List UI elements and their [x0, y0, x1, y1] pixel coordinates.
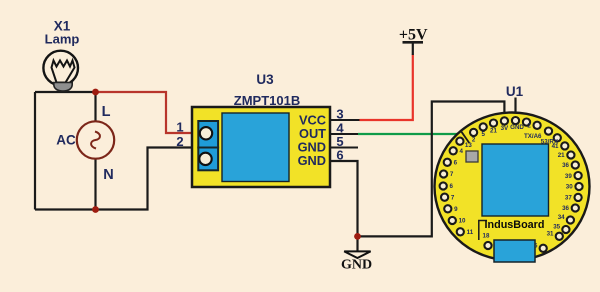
wire: AC loop top edge — [35, 91, 96, 93]
U3 terminal block cell 2 — [198, 148, 218, 171]
svg-text:10: 10 — [459, 218, 466, 225]
lamp X1 filament — [52, 61, 75, 83]
svg-text:+5V: +5V — [399, 27, 428, 44]
wire: diagonal lead from green net to board hole — [462, 132, 470, 143]
svg-text:53/RX: 53/RX — [541, 139, 559, 146]
svg-text:6: 6 — [454, 160, 458, 167]
U3 transformer block — [222, 113, 289, 182]
AC source sine squiggle — [91, 132, 100, 149]
svg-text:4: 4 — [460, 148, 464, 155]
svg-text:18: 18 — [483, 233, 490, 240]
svg-text:U3: U3 — [256, 72, 274, 87]
svg-text:IndusBoard: IndusBoard — [485, 219, 545, 231]
svg-text:2: 2 — [176, 134, 183, 149]
U1 main chip — [482, 144, 549, 216]
wire: AC loop left side — [34, 92, 36, 210]
junction on GND net — [354, 233, 361, 240]
svg-text:13: 13 — [465, 142, 472, 149]
svg-text:ZMPT101B: ZMPT101B — [234, 93, 300, 108]
U1 inner hole 18 — [484, 242, 491, 249]
svg-text:9: 9 — [454, 206, 458, 213]
svg-text:5: 5 — [481, 131, 485, 138]
svg-text:36: 36 — [562, 162, 569, 169]
svg-text:37: 37 — [565, 195, 572, 202]
wire: red net from lamp junction to U3 pin 1 — [96, 92, 195, 133]
wire: AC loop bottom + riser to pin 2 — [35, 148, 194, 210]
svg-text:N: N — [103, 167, 113, 183]
wire: U3 pin 5 stub — [330, 147, 358, 149]
svg-text:7: 7 — [451, 194, 455, 201]
U1 pin number labels — [450, 123, 574, 250]
svg-text:11: 11 — [467, 229, 474, 236]
AC source circle — [77, 121, 114, 158]
svg-text:GND: GND — [298, 153, 326, 168]
svg-text:L: L — [102, 104, 111, 120]
U1 pin holes around board edge — [440, 117, 583, 252]
svg-text:GND: GND — [341, 258, 372, 273]
wire: +5V red net to pin 3 — [360, 55, 413, 121]
U3 terminal block cell 1 — [198, 121, 218, 148]
wire: AC source top lead — [94, 92, 96, 122]
svg-text:TX/A6: TX/A6 — [524, 133, 542, 140]
wire: GND net junction branch to U1 top pin — [358, 102, 505, 237]
junction at lamp / pin1 net — [92, 89, 99, 96]
wire: U3 pin 4 stub — [330, 133, 358, 135]
+5V symbol bar — [403, 41, 424, 44]
svg-text:31: 31 — [547, 230, 554, 237]
svg-text:3V: 3V — [501, 125, 509, 132]
svg-text:1: 1 — [176, 120, 183, 135]
svg-text:GND: GND — [510, 124, 524, 131]
svg-text:6: 6 — [450, 183, 454, 190]
U1 IndusBoard round PCB — [435, 113, 590, 261]
U1 USB connector — [494, 240, 535, 262]
svg-text:30: 30 — [566, 184, 573, 191]
+5V symbol lead — [412, 42, 414, 55]
U3 module body — [192, 107, 330, 187]
svg-text:36: 36 — [562, 205, 569, 212]
svg-text:AC: AC — [56, 133, 76, 148]
ground symbol triangle — [344, 251, 370, 258]
junction at AC bottom — [92, 206, 99, 213]
wire: U3 pin 3 stub — [330, 119, 360, 121]
svg-text:7: 7 — [450, 171, 454, 178]
svg-text:39: 39 — [565, 173, 572, 180]
U3 terminal screw 1 — [200, 127, 212, 139]
svg-text:Lamp: Lamp — [45, 32, 80, 47]
lamp X1 base — [54, 83, 72, 92]
svg-text:21: 21 — [490, 127, 497, 134]
svg-text:2: 2 — [472, 137, 476, 144]
svg-text:21: 21 — [558, 152, 565, 159]
svg-text:2: 2 — [527, 123, 531, 130]
wire: AC source bottom lead — [94, 159, 96, 210]
svg-text:34: 34 — [558, 214, 565, 221]
lamp X1 bulb circle — [43, 51, 78, 86]
wire: U3 pin 6 stub to GND — [330, 161, 358, 251]
svg-text:35: 35 — [553, 224, 560, 231]
U1 silkscreen bracket — [479, 221, 487, 241]
wire: U1 reference lead — [514, 98, 516, 120]
U1 crystal (gray part) — [466, 151, 478, 162]
U3 terminal screw 2 — [199, 153, 211, 165]
svg-text:U1: U1 — [506, 84, 524, 99]
wire: green OUT net from pin 4 to U1 — [358, 133, 457, 135]
